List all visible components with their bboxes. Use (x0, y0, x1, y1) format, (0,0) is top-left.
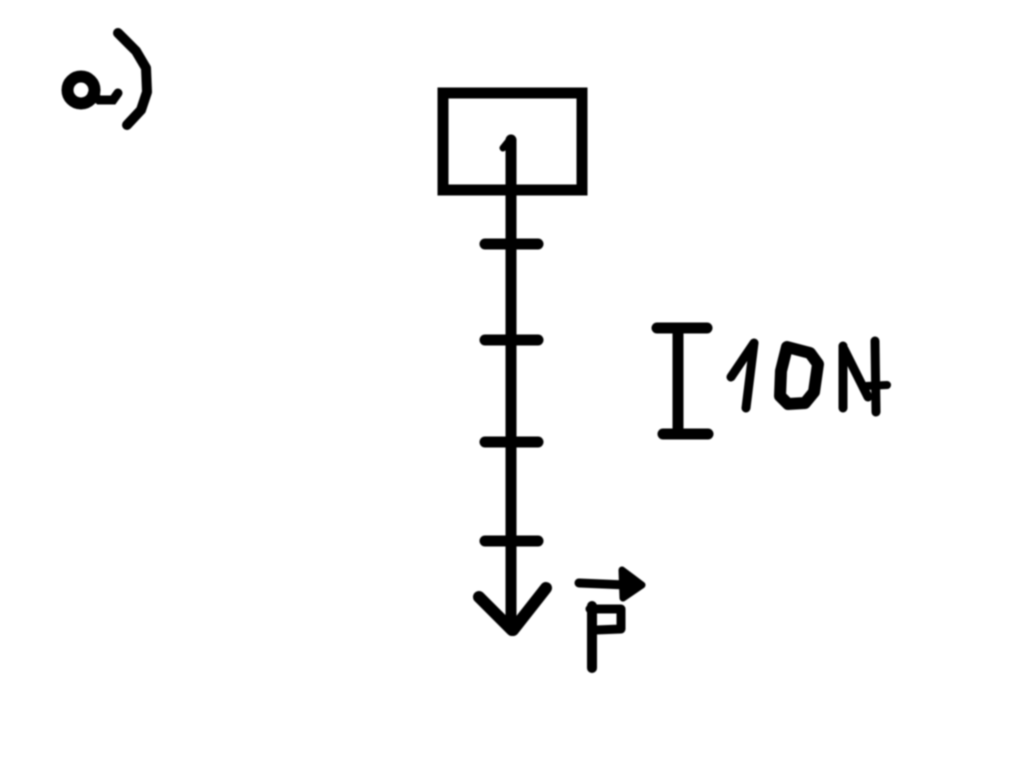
label a) (68, 33, 148, 125)
tick 4 (485, 536, 538, 547)
tick 3 (485, 437, 538, 448)
tick 2 (485, 335, 538, 346)
label 10N (731, 341, 887, 412)
tick 1 (485, 239, 538, 250)
arrowhead of force vector (479, 588, 546, 630)
label P with vector arrow (579, 570, 642, 668)
pen hook at line start (503, 138, 511, 148)
scale I-beam (657, 328, 708, 434)
force vector main line (506, 140, 517, 627)
box (object) (443, 93, 582, 190)
